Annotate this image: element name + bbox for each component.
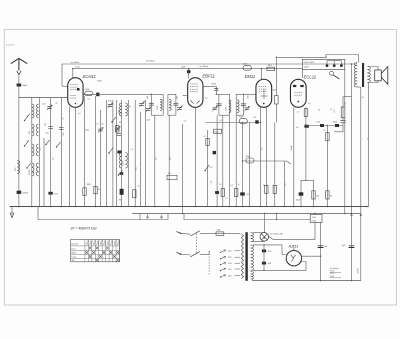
- coil IFT2a: [229, 100, 231, 113]
- component box coupling 5000: [246, 158, 254, 163]
- svg-text:25: 25: [119, 122, 121, 124]
- wire branch col: [342, 97, 344, 121]
- coil L1: [32, 104, 34, 118]
- capacitor trim osc2: [115, 128, 119, 130]
- transformer T out primary: [354, 63, 357, 88]
- svg-text:200: 200: [147, 96, 149, 99]
- resistor R osc3: [133, 190, 136, 198]
- wire det col: [207, 130, 209, 207]
- svg-text:6,3V: 6,3V: [76, 67, 81, 69]
- fuse F1: [216, 232, 224, 235]
- svg-text:3W: 3W: [119, 200, 122, 202]
- svg-text:16: 16: [144, 101, 146, 103]
- svg-text:5000: 5000: [333, 121, 337, 123]
- wire IFT1 down a: [154, 115, 156, 206]
- svg-text:0,0005: 0,0005: [122, 161, 124, 167]
- wire IFT1b top: [168, 93, 176, 95]
- op tube ECH11: [68, 78, 83, 108]
- svg-text:ECH11: ECH11: [83, 74, 96, 79]
- bus power bottom: [253, 280, 361, 282]
- shield box 1 left: [139, 214, 141, 220]
- voltage selector box: [302, 59, 345, 69]
- wire tube2 left stub: [183, 95, 188, 97]
- wire tube2 bottom: [194, 107, 196, 206]
- wire IFT1 right: [162, 94, 164, 115]
- transformer T out secondary: [367, 67, 370, 83]
- svg-text:5000: 5000: [214, 132, 218, 134]
- node IFT2b bottom: [236, 114, 243, 116]
- coil osc A: [119, 103, 121, 116]
- capacitor padder dark: [117, 151, 121, 154]
- capacitor 500pF: [17, 191, 22, 194]
- svg-text:0,1: 0,1: [247, 194, 250, 196]
- wire speaker top: [368, 67, 378, 71]
- wire IFT1 left: [150, 94, 152, 115]
- wire col 217 down: [216, 115, 218, 206]
- table band switch: [71, 239, 120, 261]
- wire AF coupling: [243, 160, 287, 162]
- capacitor trim a: [47, 107, 51, 109]
- resistor R cathode 150: [312, 191, 315, 199]
- wire HV top lead: [253, 245, 287, 255]
- svg-text:1,0: 1,0: [323, 130, 326, 132]
- wire IFT2 to tube3: [244, 93, 257, 95]
- capacitor mixer: [96, 93, 99, 97]
- wire heater line upper: [326, 55, 359, 63]
- svg-text:0,1: 0,1: [136, 168, 138, 171]
- wire tube1 top feed: [72, 69, 74, 79]
- wire tube1 bottom a: [69, 107, 71, 207]
- wire AZ11 cathode out: [302, 255, 321, 257]
- capacitor HV b: [262, 262, 266, 265]
- wire osc col1: [105, 100, 107, 207]
- resistor R screen: [304, 109, 308, 117]
- svg-text:5000: 5000: [246, 156, 250, 158]
- coil IFT1b: [169, 99, 171, 110]
- component oval 0,005 top: [243, 66, 251, 71]
- capacitor c pad: [117, 134, 122, 136]
- svg-text:120V: 120V: [304, 67, 310, 69]
- svg-text:50pF: 50pF: [22, 85, 28, 87]
- wire lamp feed: [263, 214, 265, 233]
- ground symbol: [11, 207, 13, 214]
- svg-text:3-30: 3-30: [108, 101, 112, 103]
- resistor R det: [206, 138, 209, 145]
- wire speaker bottom: [368, 81, 378, 83]
- resistor R 1k smoothing: [310, 215, 322, 223]
- arrowheads at bus2: [351, 214, 362, 216]
- svg-text:6: 6: [27, 141, 28, 143]
- svg-text:Lang: Lang: [71, 257, 75, 259]
- tap selector arrows: [221, 250, 226, 253]
- capacitor HV a: [262, 250, 266, 253]
- wire heater line right: [276, 56, 326, 58]
- svg-text:zur Skala: zur Skala: [199, 65, 210, 68]
- svg-text:1 kΩ: 1 kΩ: [312, 217, 317, 219]
- svg-text:0,1: 0,1: [88, 99, 91, 101]
- wire tube4 bottom a: [293, 107, 295, 206]
- svg-text:50pF: 50pF: [212, 83, 217, 85]
- svg-text:0,3: 0,3: [296, 127, 299, 129]
- coil L1b: [36, 104, 38, 118]
- svg-text:233: 233: [29, 131, 31, 134]
- svg-text:0,1: 0,1: [362, 97, 365, 99]
- wire top line 1: [62, 63, 352, 65]
- lamp pilot: [260, 233, 269, 242]
- power bus dots: [320, 280, 321, 281]
- svg-text:Kurz: Kurz: [71, 248, 75, 250]
- wire column D: [50, 98, 52, 207]
- svg-text:2W: 2W: [97, 189, 100, 191]
- capacitor IFT2a: [216, 104, 221, 106]
- svg-text:EM11: EM11: [245, 74, 256, 79]
- svg-text:2,0: 2,0: [308, 103, 311, 105]
- svg-text:0,3: 0,3: [334, 110, 336, 113]
- tube3 target: [261, 89, 268, 99]
- svg-text:200: 200: [177, 96, 179, 99]
- svg-text:6-1: 6-1: [254, 117, 257, 119]
- wire tube1 to IFT1: [83, 93, 151, 95]
- page border frame: [4, 30, 396, 305]
- wire osc col3: [116, 100, 118, 207]
- svg-text:7V 0,3W 0,1A: 7V 0,3W 0,1A: [270, 232, 283, 235]
- svg-text:2,0: 2,0: [205, 98, 208, 100]
- capacitor c217: [215, 191, 219, 194]
- resistor R pad: [116, 126, 119, 133]
- coil osc A2: [125, 103, 127, 116]
- wire mains top: [200, 233, 216, 235]
- wire HV caps col: [263, 245, 265, 270]
- node split cathode: [301, 179, 314, 181]
- bus2 junction dots: [264, 213, 265, 214]
- resistor R 1M top: [267, 67, 275, 70]
- wire column A: [31, 98, 33, 207]
- wire col 249 down: [249, 123, 251, 207]
- wire EM grid feed: [260, 69, 262, 80]
- svg-text:50: 50: [318, 110, 320, 112]
- table x marks: [89, 247, 92, 250]
- wire rail 368: [368, 85, 370, 207]
- svg-text:0,1: 0,1: [225, 198, 228, 200]
- wire grid line top corner: [61, 64, 63, 86]
- svg-text:0,01: 0,01: [268, 251, 272, 253]
- coil L3: [32, 144, 34, 156]
- switch S1c: [57, 142, 61, 147]
- wire tube2 to IFT2: [203, 86, 216, 94]
- wire osc col4: [121, 100, 123, 207]
- switch S1a: [25, 115, 29, 121]
- capacitor trim osc3: [108, 105, 112, 107]
- svg-text:0,005: 0,005: [226, 107, 228, 112]
- coil L2b: [36, 124, 38, 136]
- wire sec bottom down: [252, 279, 254, 281]
- tube2 diode plates: [191, 101, 200, 104]
- svg-text:25: 25: [263, 185, 265, 187]
- wire IFT2 right: [229, 94, 231, 115]
- resistor R det horizontal: [167, 175, 177, 179]
- wire selector col down: [344, 70, 346, 214]
- wire OT bottom lead: [357, 86, 361, 88]
- capacitor IFT2b: [241, 104, 246, 106]
- capacitor trim IFT1b: [177, 108, 181, 110]
- switch mains a: [191, 231, 200, 236]
- wire grid into tube1: [62, 85, 69, 87]
- svg-text:6: 6: [27, 116, 28, 118]
- capacitor grid cap 50pF: [187, 70, 191, 74]
- wire osc col6: [134, 100, 136, 207]
- svg-text:500pF: 500pF: [22, 193, 28, 195]
- wire osc col7: [139, 112, 141, 207]
- transformer T mains sec HV: [251, 245, 254, 270]
- resistor R em a: [265, 185, 268, 193]
- resistor R 0,3M: [341, 107, 345, 118]
- wire col 236 down: [235, 115, 237, 206]
- switch link dashed: [196, 234, 198, 255]
- potentiometer wiper: [205, 165, 209, 171]
- svg-text:0,1: 0,1: [297, 112, 300, 114]
- capacitor 50pF det: [214, 88, 218, 90]
- coil IFT2b: [237, 100, 239, 113]
- capacitor tone a dark: [320, 124, 324, 127]
- speaker LS: [375, 70, 382, 81]
- wire mains bottom: [200, 251, 209, 255]
- svg-text:Mittel: Mittel: [71, 252, 76, 255]
- wire cathode C leg: [300, 180, 302, 206]
- svg-text:ECL11: ECL11: [304, 75, 317, 80]
- node IFT2 bottom: [219, 114, 230, 116]
- capacitor trim IFT1: [146, 109, 150, 111]
- node IFT2 top: [216, 93, 229, 95]
- resistor R osc: [83, 188, 86, 196]
- capacitor c screen dark: [304, 125, 308, 128]
- op tube EBF11: [188, 78, 203, 108]
- capacitor 0,02: [48, 192, 52, 195]
- wire node 95 down: [95, 96, 97, 207]
- capacitor trim IFT2: [212, 108, 216, 110]
- wire 1k down: [320, 222, 322, 280]
- op tube EM11: [256, 79, 272, 107]
- capacitor branch: [340, 121, 345, 123]
- coil IFT1a: [160, 99, 162, 110]
- svg-text:0,0005: 0,0005: [29, 170, 31, 176]
- capacitor IFT1b: [173, 103, 178, 105]
- svg-text:AZ 11: AZ 11: [288, 244, 299, 248]
- wire OT right winding bottom down: [367, 83, 369, 85]
- selector bus: [327, 60, 341, 62]
- switch S2a: [109, 147, 113, 153]
- transformer T mains sec heater bottom: [251, 272, 254, 280]
- svg-text:40: 40: [130, 106, 132, 108]
- capacitor pad b: [48, 127, 53, 129]
- wire column B: [39, 98, 41, 207]
- wire col 222 down: [222, 115, 224, 206]
- coil L4: [32, 163, 34, 176]
- svg-text:3-30: 3-30: [147, 120, 151, 122]
- wire column C: [43, 138, 45, 207]
- svg-text:0,3: 0,3: [168, 173, 171, 175]
- antenna: [11, 58, 27, 70]
- svg-text:Für Umbau: Für Umbau: [330, 267, 339, 270]
- svg-text:0,1: 0,1: [220, 120, 223, 122]
- svg-text:0,01: 0,01: [317, 121, 321, 123]
- capacitor electrolytic 8uF a: [318, 245, 324, 247]
- coil L ant: [17, 161, 19, 174]
- svg-text:0,3: 0,3: [345, 102, 347, 105]
- resistor R mixer grid: [94, 186, 97, 194]
- wire tube4 bottom b: [305, 107, 307, 180]
- svg-text:50pF: 50pF: [181, 67, 186, 69]
- svg-text:0,1: 0,1: [131, 149, 134, 151]
- tube1 lower electrodes: [70, 95, 77, 97]
- resistor R236: [235, 189, 238, 197]
- tube2 grid dashes: [190, 83, 198, 85]
- svg-text:0,2: 0,2: [156, 158, 158, 161]
- resistor R em grid: [275, 96, 279, 105]
- coil L4b: [36, 163, 38, 176]
- bus heater: [132, 213, 361, 215]
- horizontal link y122: [206, 122, 261, 124]
- svg-text:5,0: 5,0: [219, 184, 222, 186]
- svg-text:5000: 5000: [85, 130, 89, 132]
- wire antenna lead: [18, 75, 20, 84]
- pointer arrow a: [146, 215, 148, 219]
- wire OT top lead: [352, 63, 357, 65]
- capacitor trim osc1: [98, 129, 102, 131]
- wire lower link: [38, 207, 168, 220]
- svg-text:EBF11: EBF11: [202, 73, 215, 78]
- bus junction dots: [18, 206, 20, 208]
- resistor R osc2 dark: [120, 189, 124, 195]
- svg-text:30: 30: [102, 124, 104, 126]
- resistor R tone b: [326, 191, 329, 199]
- wire tube3 bottom b: [265, 107, 267, 206]
- capacitor pad c: [59, 128, 64, 130]
- svg-text:0,005: 0,005: [239, 117, 244, 119]
- tube4 electrodes: [293, 85, 296, 87]
- svg-text:+250V: +250V: [358, 267, 360, 274]
- wire input top rail: [19, 97, 68, 99]
- svg-text:0,1: 0,1: [40, 148, 42, 151]
- switch S2c: [119, 170, 123, 175]
- svg-text:45mA: 45mA: [290, 145, 293, 150]
- wire AZ11 filament stub: [293, 245, 295, 251]
- wire osc col5: [127, 100, 129, 207]
- tube3 grid dashes: [259, 86, 267, 88]
- switch S1b: [25, 140, 29, 146]
- wire rail 360: [360, 87, 362, 281]
- wire cathode R leg: [313, 180, 315, 206]
- svg-text:5,0: 5,0: [53, 158, 55, 161]
- svg-text:0,1: 0,1: [262, 148, 264, 151]
- transformer T mains core: [245, 232, 247, 281]
- switch mains b: [191, 252, 200, 257]
- svg-text:1,0: 1,0: [285, 184, 287, 187]
- resistor R tone a: [326, 133, 329, 141]
- svg-text:200: 200: [248, 96, 250, 99]
- wire tone row: [306, 125, 343, 127]
- svg-text:ZF = 468/473 kHz: ZF = 468/473 kHz: [70, 227, 98, 231]
- node IFT1 top: [151, 93, 163, 95]
- mains plug prongs: [177, 232, 181, 254]
- svg-text:100: 100: [46, 133, 49, 135]
- tube1 grid dashes: [70, 84, 78, 86]
- wire IFT1b right: [175, 94, 177, 115]
- svg-text:0,1: 0,1: [330, 109, 333, 111]
- switch S1e: [27, 163, 31, 168]
- wire col 229 down: [229, 115, 231, 206]
- wire IFT2b right: [243, 94, 245, 115]
- capacitor tone b dark: [335, 124, 339, 127]
- bus chassis ground: [10, 206, 369, 208]
- selector plugs: [326, 64, 329, 67]
- wire branch top: [343, 96, 352, 98]
- svg-text:zur Skala: zur Skala: [70, 61, 81, 64]
- wire IFT2b left: [235, 94, 237, 115]
- svg-text:mit Skala: mit Skala: [146, 60, 155, 63]
- transformer T out core: [362, 63, 364, 87]
- capacitor 50uF cathode: [299, 192, 304, 195]
- wire osc col8: [144, 100, 146, 207]
- component pad 119: [120, 172, 124, 175]
- wire node 84 down: [83, 96, 85, 207]
- capacitor antenna 50pF: [17, 84, 22, 87]
- svg-text:200: 200: [63, 133, 65, 136]
- wire EM right up a: [272, 57, 277, 90]
- transformer T mains primary: [241, 234, 243, 279]
- wire antenna to coil block: [18, 87, 20, 207]
- node IFT1 bottom: [151, 114, 163, 116]
- switch S2b: [112, 117, 116, 122]
- wire lamp to box: [268, 222, 315, 239]
- wire sec top to lamp: [253, 232, 265, 234]
- capacitor trim IFT2b: [245, 108, 249, 110]
- svg-text:0,1: 0,1: [170, 158, 172, 161]
- svg-text:100: 100: [45, 123, 47, 126]
- wire tube3 bottom a: [260, 107, 262, 206]
- wire cathode line tube1: [19, 97, 68, 99]
- wire lamp bottom: [253, 240, 265, 243]
- capacitor gang arrow: [139, 104, 143, 106]
- wire grid diag to ECL: [287, 161, 291, 164]
- coil osc B: [119, 153, 121, 169]
- rectifier AZ11: [286, 251, 301, 266]
- svg-text:1,0: 1,0: [184, 121, 187, 123]
- wire col 284 down: [284, 161, 286, 207]
- node IFT1b bottom: [168, 114, 176, 116]
- svg-text:50: 50: [138, 186, 140, 188]
- wire col 327 down: [326, 126, 328, 207]
- svg-text:47kΩ: 47kΩ: [85, 89, 90, 91]
- svg-text:0,2: 0,2: [231, 185, 234, 187]
- svg-text:50: 50: [87, 184, 89, 186]
- wire IFT1b left: [167, 94, 169, 115]
- wire IFT1 down b: [168, 115, 170, 206]
- wire osc col2: [112, 100, 114, 207]
- svg-text:0,5: 0,5: [210, 167, 213, 169]
- wire IFT2b top: [236, 93, 243, 95]
- wire tube1 bottom b: [74, 107, 76, 206]
- transformer T mains sec heater top: [251, 233, 254, 242]
- component det blob: [213, 151, 216, 154]
- svg-text:50: 50: [97, 124, 99, 126]
- svg-text:50: 50: [330, 196, 332, 198]
- wire column E: [60, 98, 62, 207]
- selector lever: [330, 71, 334, 75]
- wire fuse to primary: [224, 233, 240, 235]
- shield box 2: [184, 214, 310, 220]
- svg-text:0,1: 0,1: [204, 136, 207, 138]
- svg-text:4 x 6,3 V: 4 x 6,3 V: [6, 44, 15, 47]
